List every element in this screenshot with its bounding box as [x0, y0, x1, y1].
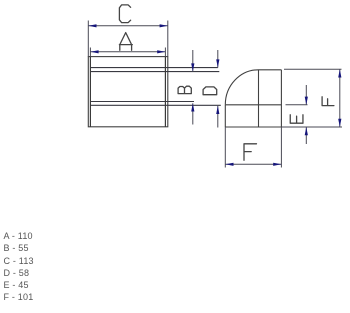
A extension line left: [89, 48, 91, 57]
C dimension line: [88, 25, 168, 27]
F horizontal extension line right: [280, 127, 282, 168]
A arrow right: [157, 50, 165, 53]
label B (rotated): [178, 86, 191, 93]
B arrow top (down): [191, 63, 194, 71]
label E (rotated): [290, 115, 303, 123]
F horizontal arrow right: [273, 163, 281, 166]
F vertical arrow top (up): [338, 69, 341, 77]
label F horizontal: [244, 144, 257, 161]
socket band outer bottom line (extends right as B/D bottom extension): [90, 104, 220, 106]
socket band right vertical edge: [164, 57, 166, 127]
socket band inner bottom line: [90, 101, 194, 103]
E/F bottom extension line: [281, 126, 342, 128]
C arrow right: [160, 24, 168, 27]
A dimension line: [90, 51, 165, 53]
elbow opening bottom line: [225, 104, 281, 106]
B arrow bottom (up): [191, 103, 194, 111]
E dimension line lower segment: [305, 127, 307, 144]
D dimension line lower segment: [217, 106, 219, 128]
legend line A: [4, 230, 34, 242]
C arrow left: [88, 24, 96, 27]
B dimension line lower segment: [192, 103, 194, 124]
label A: [119, 33, 132, 51]
E top extension line: [286, 104, 308, 106]
socket band inner top line (extends right as B top extension): [90, 71, 219, 73]
elbow seam vertical: [258, 70, 260, 127]
E dimension line upper segment: [305, 85, 307, 105]
left view outer body rectangle: [88, 57, 168, 127]
elbow bottom edge: [225, 126, 281, 128]
B dimension line upper segment: [192, 50, 194, 72]
label C: [119, 5, 130, 23]
F vertical dimension line: [339, 69, 341, 127]
legend line C: [4, 255, 34, 267]
elbow top edge: [259, 69, 282, 71]
elbow left edge: [224, 105, 226, 127]
A extension line right: [164, 48, 166, 57]
F vertical top extension line: [284, 68, 342, 70]
D arrow bottom (up): [216, 106, 219, 114]
D arrow top (down): [216, 59, 219, 67]
legend line B: [4, 242, 34, 254]
C extension line left: [87, 21, 89, 57]
legend text block: [4, 230, 34, 304]
legend line E: [4, 279, 34, 291]
label D (rotated): [203, 87, 217, 95]
E arrow bottom (up): [305, 127, 308, 135]
F horizontal dimension line: [225, 163, 281, 165]
socket band left vertical edge: [89, 57, 91, 127]
socket band outer top line (extends right as D top extension): [90, 67, 217, 69]
D dimension line upper segment: [217, 50, 219, 68]
C extension line right: [167, 21, 169, 57]
E arrow top (down): [305, 97, 308, 105]
F horizontal extension line left: [224, 127, 226, 168]
elbow outer arc: [225, 70, 258, 105]
legend line F: [4, 291, 34, 303]
F vertical arrow bottom (down): [338, 119, 341, 127]
F horizontal arrow left: [225, 163, 233, 166]
A arrow left: [90, 50, 98, 53]
label F vertical (rotated): [322, 97, 334, 106]
legend line D: [4, 267, 34, 279]
elbow right edge: [280, 70, 282, 127]
